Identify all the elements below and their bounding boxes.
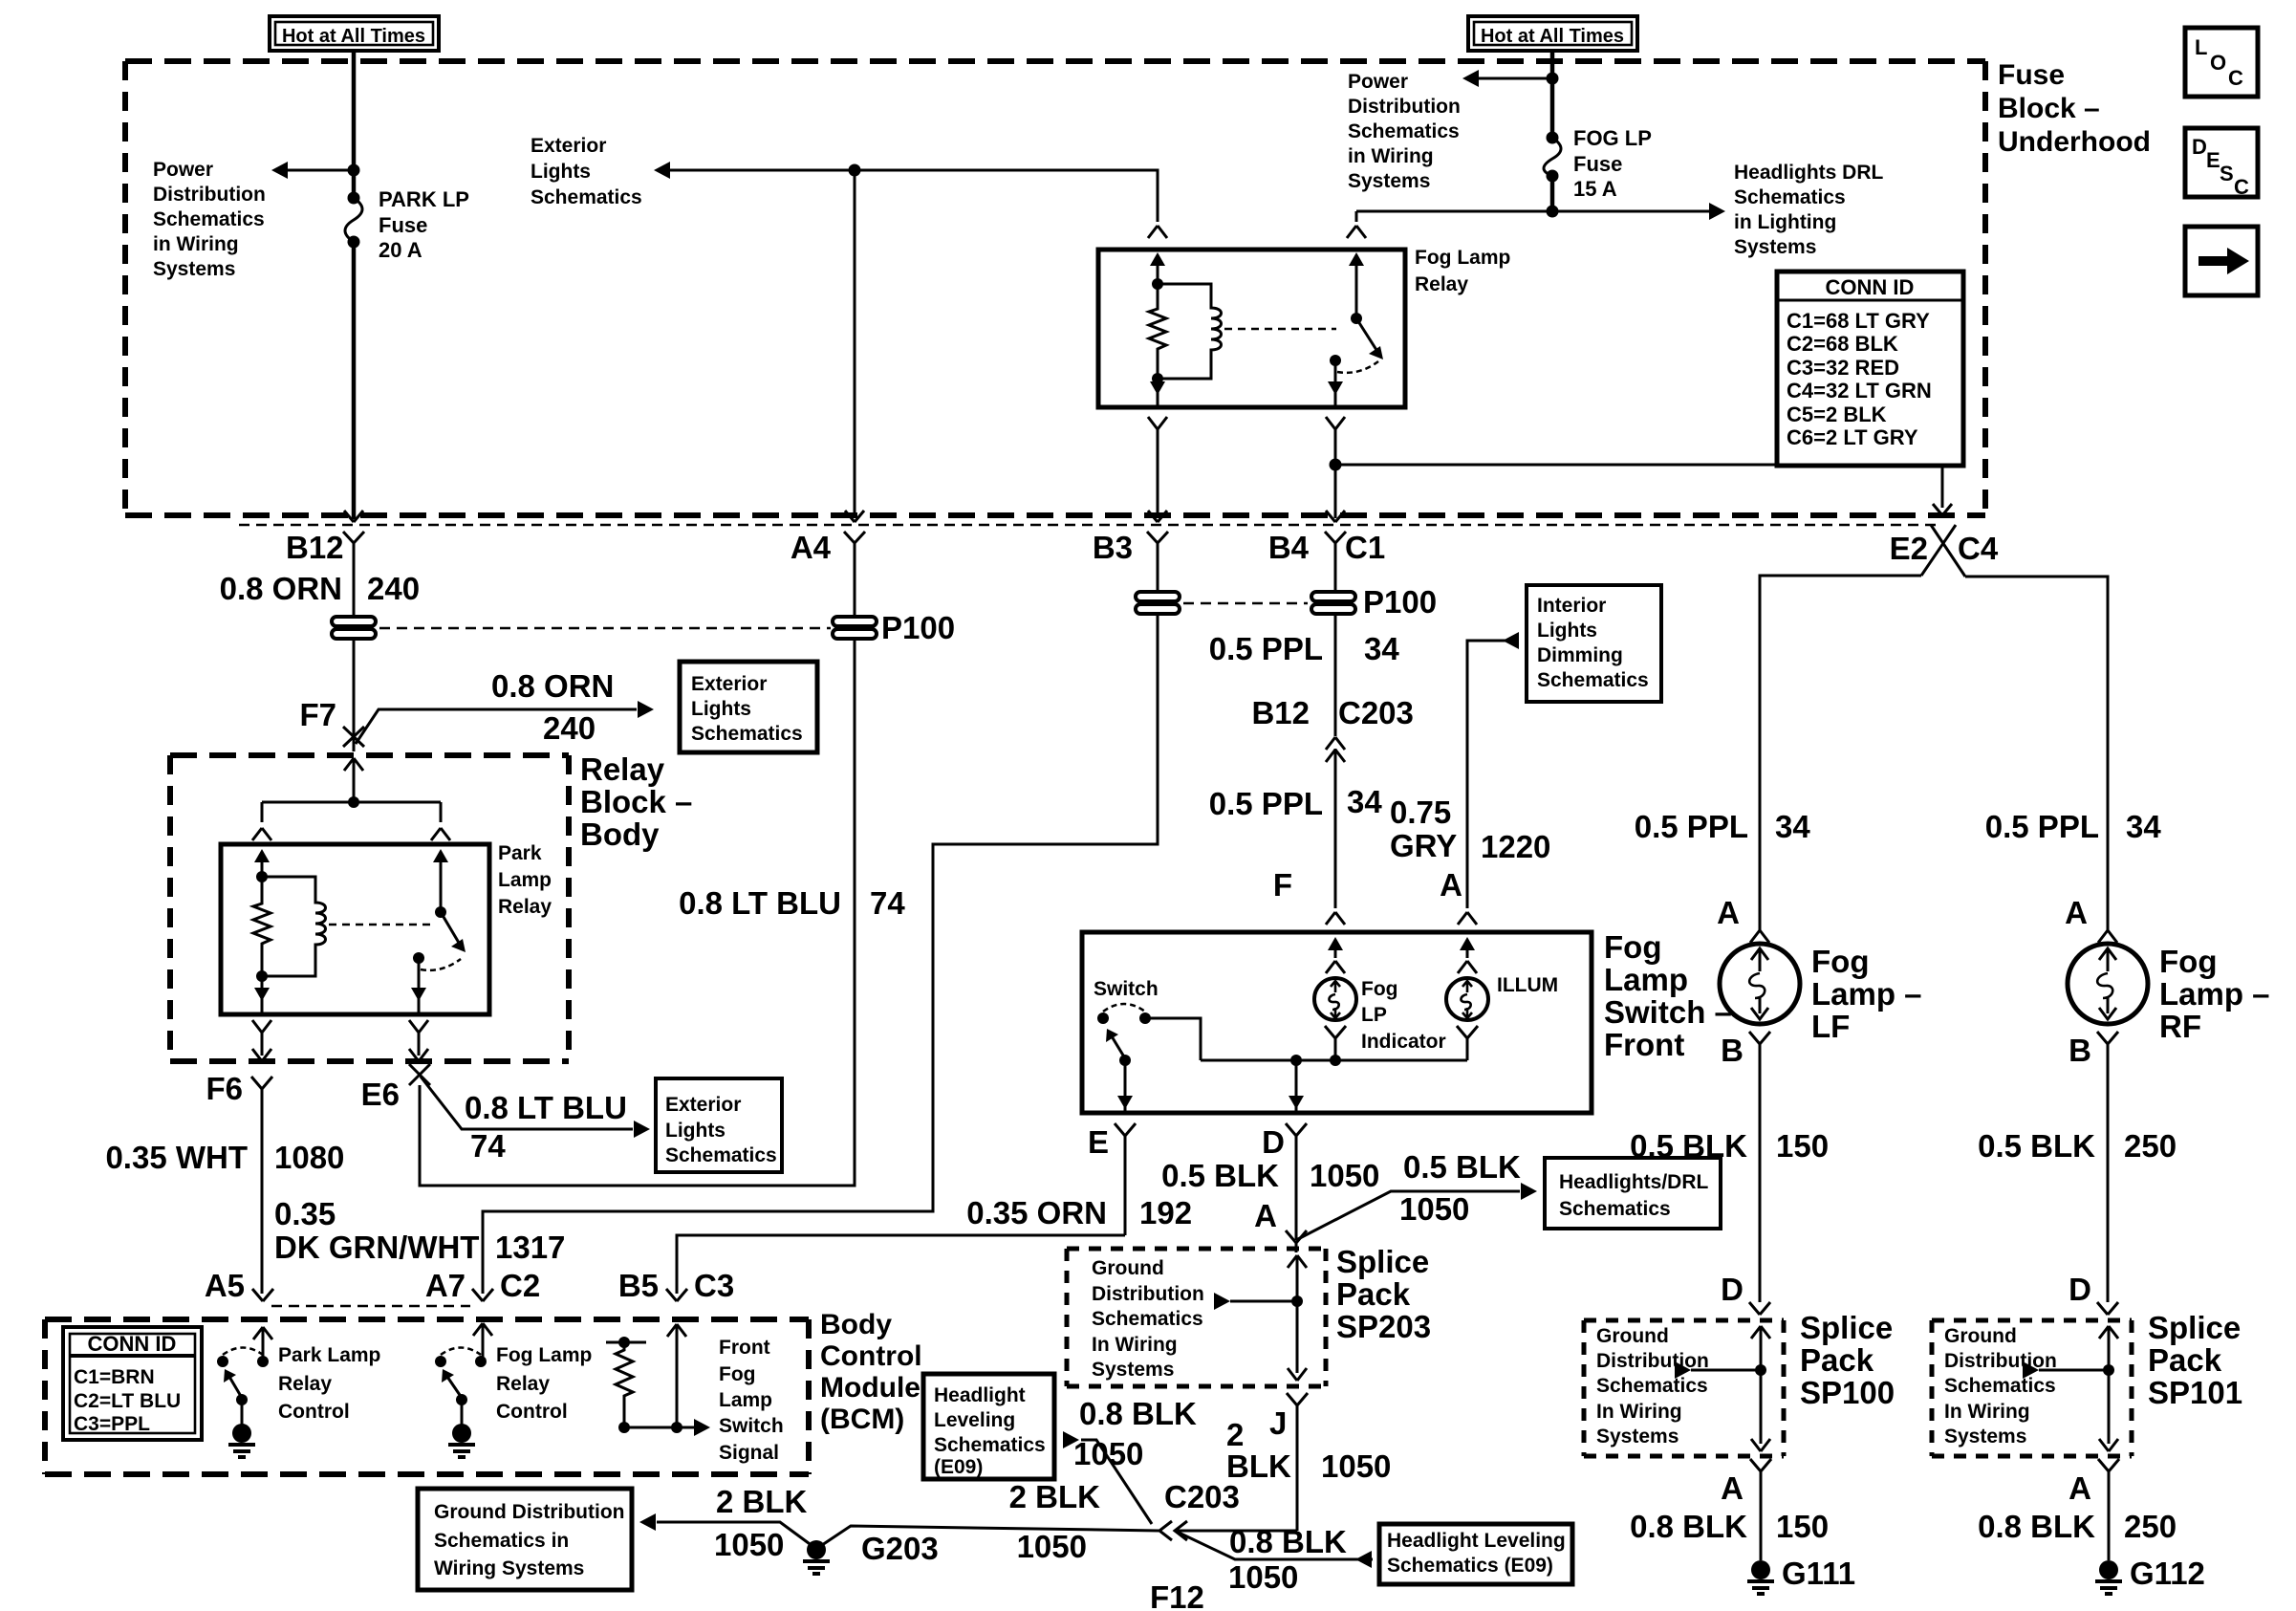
svg-text:F12: F12 [1150,1579,1204,1611]
svg-text:E: E [2206,148,2220,172]
svg-text:B12: B12 [286,530,344,565]
SP203 exit arrow [1288,1368,1307,1381]
svg-text:Distribution: Distribution [1944,1350,2057,1372]
svg-text:B4: B4 [1268,530,1310,565]
svg-text:C203: C203 [1338,695,1414,730]
switch S1 fog lamp switch [1097,1004,1467,1066]
SP100 internal feed arrow [1751,1326,1770,1444]
wire E6 to A4 riser [420,639,855,1186]
svg-text:Fog: Fog [1811,944,1869,979]
svg-text:Schematics: Schematics [153,208,265,230]
svg-text:1050: 1050 [1399,1191,1469,1227]
dashed arc [441,1348,481,1356]
svg-text:1317: 1317 [495,1230,565,1265]
pin Y A7/C2 [472,1289,493,1301]
svg-text:34: 34 [1347,784,1382,819]
wire exterior lights feed to fog relay [670,170,1158,222]
node pivot dot [1119,1055,1131,1066]
svg-text:Headlight: Headlight [934,1384,1026,1406]
svg-text:Distribution: Distribution [1092,1283,1204,1305]
arrow to Power Distribution Schematics (left) [271,162,288,179]
wire branch 0.8 ORN 240 to exterior lights [356,709,637,744]
label Fuse Block - Underhood [1998,59,2151,158]
svg-text:(BCM): (BCM) [820,1404,904,1435]
pin Y below ILLUM [1457,1026,1478,1060]
svg-text:Wiring Systems: Wiring Systems [434,1557,584,1579]
svg-text:Pack: Pack [1336,1276,1411,1312]
svg-text:Control: Control [278,1401,350,1423]
svg-text:0.8 LT BLU: 0.8 LT BLU [465,1090,627,1125]
svg-text:0.8 BLK: 0.8 BLK [1079,1396,1197,1431]
arm [229,1377,242,1398]
svg-text:C6=2 LT GRY: C6=2 LT GRY [1787,425,1918,449]
pin chevron park relay right [431,828,450,840]
svg-text:Schematics: Schematics [1944,1375,2056,1397]
svg-text:A: A [1717,895,1740,930]
node SP100 junction dot [1755,1364,1766,1376]
label Splice Pack SP203 [1336,1244,1431,1344]
fuse block underhood dashed box [125,61,1985,515]
relay K1 Park Lamp Relay [221,844,489,1014]
dashed pair link B3-B4 [1183,602,1308,605]
svg-text:0.5 PPL: 0.5 PPL [1635,809,1748,844]
svg-text:Distribution: Distribution [1596,1350,1709,1372]
svg-text:Fuse: Fuse [1573,152,1622,176]
svg-text:Body: Body [820,1309,892,1340]
svg-text:1050: 1050 [1228,1559,1298,1595]
arrow from ground distribution text [1214,1293,1230,1310]
svg-text:CONN ID: CONN ID [88,1332,177,1356]
svg-text:E2: E2 [1890,531,1928,566]
BCM pin arrow B5/C3 [667,1324,686,1427]
svg-text:CONN ID: CONN ID [1826,275,1915,299]
connector C203/F12 double chevron [1159,1521,1187,1540]
pin Y A4 [844,532,865,618]
LOC icon box [2185,28,2258,97]
label Fog Lamp Relay Control [496,1344,592,1423]
svg-text:C: C [2228,66,2243,90]
svg-text:Fog: Fog [1361,978,1397,1000]
pin Y below SP101 [2098,1459,2119,1560]
svg-text:L: L [2195,35,2207,59]
svg-text:D: D [1262,1124,1285,1160]
svg-text:B5: B5 [618,1268,659,1303]
dashed arc [1103,1004,1145,1012]
svg-text:A: A [1440,867,1462,903]
svg-text:Park: Park [498,842,542,864]
arrow from Interior Lights box (left-pointing) [1503,632,1519,649]
relay block body dashed box [170,755,569,1061]
node coil top dot [256,871,268,882]
label Park Lamp Relay Control [278,1344,380,1423]
svg-text:E6: E6 [361,1077,400,1112]
ref box Headlights/DRL Schematics [1545,1158,1721,1229]
ref box Exterior Lights Schematics 2 [656,1078,782,1172]
node coil bottom dot [256,970,268,982]
svg-text:Schematics (E09): Schematics (E09) [1387,1555,1553,1577]
svg-text:C203: C203 [1164,1479,1240,1514]
F entry arrow inside switch box [1328,937,1343,950]
svg-text:Fog: Fog [2159,944,2217,979]
svg-text:Relay: Relay [496,1373,550,1395]
dashed throw arc [1337,361,1378,373]
pin arrow B12 into row [344,511,363,522]
SP100 exit arrow [1751,1439,1770,1451]
pin Y below indicator [1325,1026,1346,1060]
ground G111 [1747,1560,1774,1594]
svg-text:A: A [1254,1198,1277,1233]
branch F12 to headlight leveling 2 [1175,1531,1373,1559]
svg-text:Schematics: Schematics [1092,1308,1203,1330]
label Splice Pack SP101 [2148,1310,2242,1410]
svg-text:A7: A7 [425,1268,466,1303]
svg-text:Fog Lamp: Fog Lamp [1415,247,1510,269]
svg-text:Lamp: Lamp [498,869,552,891]
node resistor bottom dot [618,1422,630,1433]
note Exterior Lights Schematics (top) [531,135,642,208]
pin arrow B4 into row [1326,511,1345,522]
svg-text:0.8 BLK: 0.8 BLK [1229,1524,1347,1559]
wire switch output [418,958,421,992]
pin Y below RF [2097,1032,2118,1302]
node left contact dot [1097,1012,1109,1024]
arrow to Headlight Leveling box 1 [1063,1431,1079,1448]
pin Y B3 [1147,532,1168,592]
wire resistor to signal arrow [624,1426,694,1429]
svg-text:Systems: Systems [1734,236,1816,258]
coil L (fog) [1158,284,1222,379]
svg-text:S: S [2220,162,2234,185]
SP101 internal feed arrow [2099,1326,2118,1444]
svg-text:in Wiring: in Wiring [1348,145,1434,167]
wire B4/C1 down to fog switch F [1334,615,1337,908]
dashed arc [223,1348,263,1356]
connector row: thin dashed harness line [239,524,1939,527]
dashed throw arc [421,959,461,970]
pin Y B12 [343,532,364,618]
node SP203 junction dot [1291,1295,1303,1307]
BCM pin arrow A7/C2 [473,1323,492,1361]
label Fog LP Indicator [1361,978,1446,1053]
pin Y B5/C3 [666,1289,687,1301]
BCM pin arrow A5 [253,1327,272,1361]
pin arrow F6 at block edge [252,1049,271,1061]
pin chevron left entry [1148,226,1167,238]
svg-text:Headlight Leveling: Headlight Leveling [1387,1530,1566,1552]
wire right contact to rail [1145,1018,1201,1060]
node junction dot fog fuse out [1547,206,1559,218]
svg-text:P100: P100 [881,610,955,645]
svg-text:Relay: Relay [1415,273,1468,295]
relay U1 Fog Lamp Relay [1098,226,1405,407]
connector P100 grommet (B4) [1311,592,1355,614]
svg-text:Fog: Fog [1604,929,1661,965]
node pivot dot [456,1394,467,1405]
svg-text:In Wiring: In Wiring [1944,1401,2030,1423]
pin Y F6 [251,1077,272,1294]
svg-text:SP100: SP100 [1800,1375,1895,1410]
pin chevron A at switch [1458,912,1477,925]
node switch pivot dot [1351,313,1362,324]
connector P100 grommet (A4) [833,617,877,639]
label Park Lamp Relay [498,842,552,918]
svg-text:Distribution: Distribution [1348,96,1461,118]
wire from Hot1 down to junction [352,51,357,170]
svg-text:250: 250 [2124,1509,2177,1544]
svg-text:74: 74 [470,1128,506,1164]
svg-text:G112: G112 [2130,1556,2205,1591]
note Power Distribution Schematics in Wiring Systems (left) [153,159,266,280]
connector P100 grommet (B12/F7) [332,617,376,639]
svg-text:Interior: Interior [1537,595,1606,617]
svg-text:Systems: Systems [1092,1359,1174,1381]
svg-text:Schematics: Schematics [934,1434,1046,1456]
node junction dot hot2 [1547,73,1559,85]
node junction dot C1 tap [1330,459,1342,471]
node switch pivot dot [435,906,446,918]
svg-text:192: 192 [1139,1195,1192,1230]
branch D to headlights/DRL [1296,1191,1520,1240]
svg-text:B: B [2069,1033,2091,1068]
svg-text:(E09): (E09) [934,1456,983,1478]
wire from Hot2 down [1550,52,1555,138]
svg-text:Relay: Relay [278,1373,332,1395]
svg-text:Schematics: Schematics [665,1144,777,1166]
wire E2/C4 to RF lamp [1965,577,2108,930]
Hot at All Times box 1 [270,16,439,51]
svg-text:P100: P100 [1363,584,1437,620]
ref box Ground Distribution Schematics in Wiring Systems (bottom left) [418,1489,632,1590]
switch arm with arrow [1112,1036,1125,1058]
svg-text:Block –: Block – [580,784,692,819]
pin chevron D into SP100 [1749,1302,1770,1315]
svg-text:Lamp –: Lamp – [2159,976,2270,1012]
connector P100 grommet (B3) [1136,592,1180,614]
svg-text:Splice: Splice [2148,1310,2241,1345]
svg-text:In Wiring: In Wiring [1092,1334,1178,1356]
wire B12 to F7 [353,641,356,751]
svg-text:C3=32 RED: C3=32 RED [1787,356,1899,380]
lamp Fog Lamp RF [2068,944,2148,1024]
svg-text:Relay: Relay [580,751,665,787]
svg-text:F: F [1273,867,1292,903]
svg-text:A4: A4 [791,530,832,565]
svg-text:34: 34 [1775,809,1810,844]
svg-text:Schematics: Schematics [1734,186,1846,208]
pin chevron right entry [1347,226,1366,238]
pin Y B4/C1 [1325,532,1346,592]
CONN ID table (BCM) [63,1327,202,1440]
wire J to C203 [1178,1530,1297,1533]
svg-text:Hot at All Times: Hot at All Times [282,26,425,47]
node junction dot [671,1422,682,1433]
note Ground Distribution Schematics In Wiring Systems (SP101) [1944,1325,2057,1448]
node contact dot left [217,1356,228,1367]
pin chevron below park relay right [409,1020,428,1056]
arrow into Exterior Lights box 1 [638,701,654,718]
SP101 exit arrow [2099,1439,2118,1451]
connector X E6 [409,1064,430,1085]
node coil bottom dot [1152,373,1163,384]
branch F12 to headlight leveling 1 [1081,1440,1152,1524]
ground G112 [2095,1560,2122,1594]
svg-text:240: 240 [367,571,420,606]
svg-text:A5: A5 [205,1268,245,1303]
svg-text:ILLUM: ILLUM [1497,974,1558,996]
wire B3 to BCM C2 [483,615,1158,1294]
BCM dashed box [45,1319,809,1474]
svg-text:Schematics: Schematics [1348,120,1460,142]
node switch output dot [1330,355,1341,366]
svg-text:PARK LP: PARK LP [379,187,469,211]
svg-text:1050: 1050 [1321,1448,1391,1484]
node rail dot F [1330,1055,1341,1066]
svg-text:Schematics: Schematics [1559,1198,1671,1220]
DESC icon box [2185,128,2258,199]
label Fog Lamp - RF [2159,944,2270,1044]
svg-text:C: C [2234,175,2249,199]
svg-text:in Wiring: in Wiring [153,233,239,255]
svg-text:F6: F6 [206,1071,243,1106]
svg-text:0.8 BLK: 0.8 BLK [1630,1509,1747,1544]
svg-text:74: 74 [870,885,905,921]
ref box Headlight Leveling Schematics (E09) [923,1374,1054,1479]
svg-text:Pack: Pack [2148,1342,2222,1378]
pin arrow A4 into row [845,511,864,522]
arrow to Power Distribution Schematics (mid) [1462,70,1479,87]
arrow from ground distribution text (SP101) [2023,1361,2039,1379]
node contact dot right [475,1356,487,1367]
pin chevron park relay left [252,828,271,840]
svg-text:LP: LP [1361,1004,1387,1026]
node junction dot B12 feed [348,164,360,177]
pin arrow E6 at block edge [409,1049,428,1061]
arrow icon box [2185,227,2258,295]
pin chevron below park relay left [252,1020,271,1056]
switch park lamp relay control [217,1348,269,1458]
coil feed arrow [1150,252,1165,266]
svg-text:0.35: 0.35 [274,1196,336,1231]
svg-text:15 A: 15 A [1573,177,1617,201]
arm [447,1377,462,1398]
arrow into Headlights/DRL box [1521,1183,1537,1200]
svg-text:Splice: Splice [1800,1310,1893,1345]
svg-text:A: A [2065,895,2088,930]
pin chevron below relay left (B3) [1148,417,1167,518]
wire rail to relay entries [262,802,441,822]
arrow to Headlights DRL Schematics (right-pointing) [1709,203,1725,220]
A entry arrow inside switch box [1460,937,1475,950]
svg-text:Schematics: Schematics [1596,1375,1708,1397]
svg-text:C2: C2 [500,1268,540,1303]
svg-text:Systems: Systems [1596,1426,1679,1448]
svg-text:Switch –: Switch – [1604,994,1732,1030]
svg-text:150: 150 [1776,1128,1829,1164]
wire to ground [461,1400,464,1425]
resistor relay R (park) [253,877,271,976]
svg-text:2 BLK: 2 BLK [716,1484,808,1519]
arrow to Headlight Leveling box 2 [1355,1551,1372,1568]
svg-text:GRY: GRY [1390,828,1457,863]
wire to ground [241,1400,244,1425]
svg-text:Exterior: Exterior [691,673,767,695]
label Relay Block - Body [580,751,692,852]
svg-text:Front: Front [719,1337,770,1359]
svg-text:Headlights DRL: Headlights DRL [1734,162,1884,184]
node rail junction dot [348,796,359,808]
svg-text:C1=BRN: C1=BRN [74,1366,155,1388]
pin chevron F at switch [1326,912,1345,925]
svg-text:0.75: 0.75 [1390,795,1451,830]
svg-text:0.5 PPL: 0.5 PPL [1209,786,1323,821]
fuse PARK LP 20A [345,170,469,519]
pin chevron below box E [1115,1123,1136,1235]
svg-text:Splice: Splice [1336,1244,1429,1279]
pin chevron ILLUM top [1458,961,1477,973]
svg-text:Systems: Systems [153,258,235,280]
svg-text:1080: 1080 [274,1140,344,1175]
svg-text:Lamp: Lamp [719,1389,772,1411]
arrow from exterior lights wire (left-pointing) [654,162,670,179]
svg-text:Schematics: Schematics [531,186,642,208]
node junction dot A4 tap [849,164,861,177]
dashed actuation link [329,924,436,926]
svg-text:Fog: Fog [719,1363,755,1385]
pin chevron below relay right (B4) [1326,417,1345,465]
svg-text:DK GRN/WHT: DK GRN/WHT [274,1230,479,1265]
lamp Fog LP Indicator [1314,978,1356,1020]
wire coil low out [261,976,264,992]
svg-text:Systems: Systems [1944,1426,2026,1448]
switch arm [1356,318,1376,350]
svg-text:0.5 PPL: 0.5 PPL [1985,809,2099,844]
pin arrow E2 into row [1933,504,1952,515]
pin chevron D into SP101 [2097,1302,2118,1315]
pin chevron A into SP203 [1286,1230,1307,1252]
svg-text:Lamp: Lamp [1604,962,1688,997]
wire C203 to G203 and ground dist box [657,1522,1159,1549]
svg-text:Switch: Switch [719,1415,784,1437]
pin arrow B3 into row [1148,511,1167,522]
Hot at All Times box 2 [1468,16,1637,51]
svg-text:1050: 1050 [714,1527,784,1562]
svg-text:Ground: Ground [1092,1257,1164,1279]
wire D drop [1295,1060,1298,1099]
svg-text:E: E [1088,1124,1109,1160]
svg-text:Exterior: Exterior [531,135,606,157]
svg-text:34: 34 [1364,631,1399,666]
label Fog Lamp - LF [1811,944,1922,1044]
wire A4 drop [854,170,856,518]
svg-text:Schematics in: Schematics in [434,1530,569,1552]
svg-text:Headlights/DRL: Headlights/DRL [1559,1171,1709,1193]
resistor front fog lamp switch signal [606,1337,710,1436]
pin arrow F7 into relay block [344,758,363,802]
svg-text:Block –: Block – [1998,93,2100,124]
svg-text:1050: 1050 [1017,1529,1087,1564]
svg-text:Fuse: Fuse [379,213,427,237]
svg-text:1050: 1050 [1310,1158,1379,1193]
svg-text:Lamp –: Lamp – [1811,976,1922,1012]
svg-text:Lights: Lights [531,161,591,183]
svg-text:C2=68 BLK: C2=68 BLK [1787,332,1898,356]
svg-text:Ground: Ground [1596,1325,1669,1347]
svg-text:0.5 BLK: 0.5 BLK [1161,1158,1279,1193]
svg-text:SP203: SP203 [1336,1309,1431,1344]
fuse FOG LP 15A [1544,126,1652,211]
svg-text:SP101: SP101 [2148,1375,2242,1410]
label Front Fog Lamp Switch Signal [719,1337,784,1464]
